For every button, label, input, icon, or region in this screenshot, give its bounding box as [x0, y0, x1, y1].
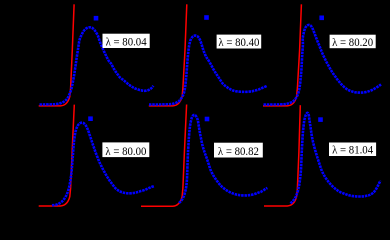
red pump curve, bottom-right panel	[264, 105, 300, 206]
blue dotted intensity curve, bottom-middle panel	[179, 115, 267, 203]
detached blue marker dot, top-left panel	[94, 16, 99, 21]
blue dotted intensity curve, bottom-right panel	[291, 113, 381, 204]
red pump curve, bottom-left panel	[39, 105, 75, 206]
svg-text:λ = 81.04: λ = 81.04	[332, 143, 373, 157]
svg-text:λ = 80.40: λ = 80.40	[218, 35, 259, 49]
label box lambda=80.00, bottom-left panel	[102, 142, 149, 157]
svg-text:λ = 80.04: λ = 80.04	[106, 35, 147, 49]
detached blue marker dot, bottom-left panel	[88, 116, 93, 121]
svg-text:λ = 80.00: λ = 80.00	[105, 144, 146, 158]
detached blue marker dot, bottom-right panel	[318, 117, 323, 122]
blue dotted intensity curve, bottom-left panel	[52, 123, 154, 206]
blue dotted intensity curve, top-left panel	[40, 27, 154, 104]
label box lambda=80.40, top-middle panel	[217, 35, 262, 50]
red pump curve, bottom-middle panel	[141, 105, 187, 207]
detached blue marker dot, top-middle panel	[204, 15, 209, 20]
blue dotted intensity curve, top-right panel	[264, 25, 382, 105]
label box lambda=80.04, top-left panel	[103, 34, 150, 49]
label box lambda=80.82, bottom-middle panel	[214, 143, 263, 159]
label box lambda=80.20, top-right panel	[330, 35, 376, 49]
red pump curve, top-middle panel	[149, 4, 187, 106]
svg-text:λ = 80.20: λ = 80.20	[332, 35, 373, 49]
detached blue marker dot, top-right panel	[319, 16, 324, 21]
red pump curve, top-right panel	[263, 4, 301, 106]
svg-text:λ = 80.82: λ = 80.82	[218, 144, 259, 158]
red pump curve, top-left panel	[39, 4, 74, 106]
blue dotted intensity curve, top-middle panel	[149, 36, 267, 105]
label box lambda=81.04, bottom-right panel	[329, 143, 376, 157]
detached blue marker dot, bottom-middle panel	[205, 117, 210, 122]
